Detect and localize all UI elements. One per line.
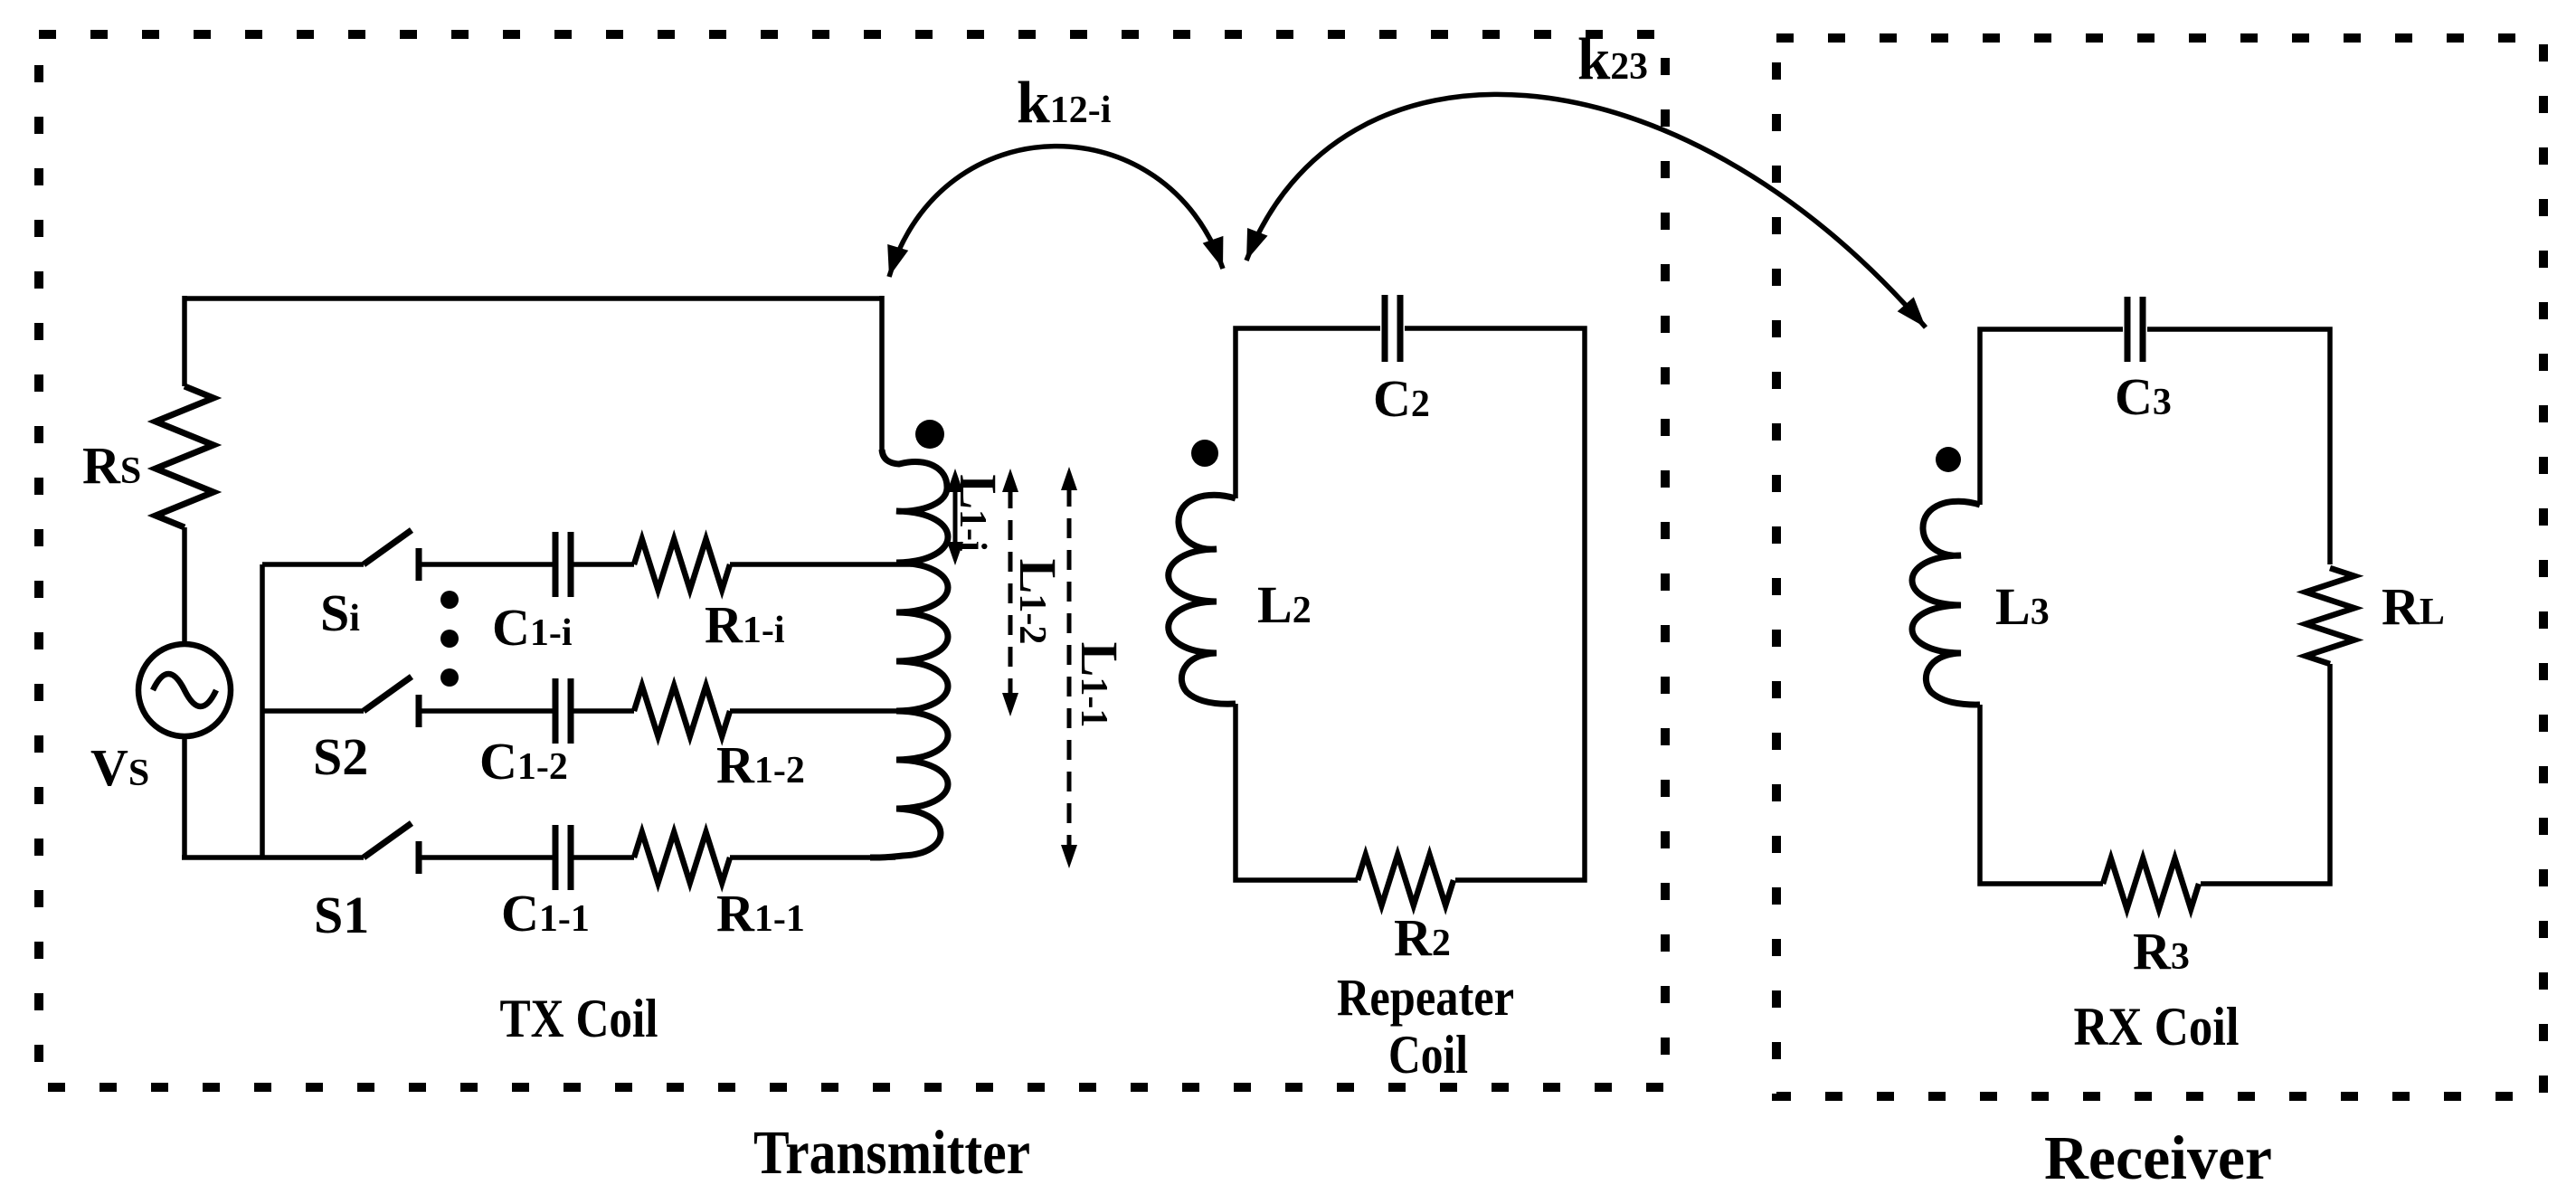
wire: repeater bottom-left + left side up to coil (1236, 704, 1358, 880)
wire: branch line to switch Si (262, 562, 364, 567)
coupling arrow k12-i (889, 147, 1223, 277)
switch Si blade (364, 530, 412, 564)
capacitor C1-1 (555, 825, 571, 890)
capacitor C2 (1385, 295, 1400, 362)
coupling arrow k23 (1246, 94, 1926, 327)
wire: repeater top-left segment (1236, 328, 1380, 498)
inductor L2 (1169, 495, 1236, 704)
L1-1 dimension arrow (dashed) (1067, 487, 1072, 848)
wire: capacitor C1-2 to resistor R1-2 (573, 708, 634, 714)
svg-text:S2: S2 (313, 727, 368, 786)
svg-text:S1: S1 (314, 886, 369, 944)
switch S1 contact bar (416, 841, 422, 874)
switch Si contact bar (416, 548, 422, 581)
wire: branch line to switch S1 (361, 855, 366, 860)
wire: left rail below Vs to bottom corner (182, 736, 187, 858)
Transmitter dashed box (39, 34, 1665, 1087)
resistor R3 (2103, 858, 2199, 909)
switch S2 blade (364, 677, 412, 711)
svg-text:Transmitter: Transmitter (753, 1118, 1030, 1187)
wire: left rail top segment (182, 296, 187, 386)
wire: capacitor C1-1 to resistor R1-1 (573, 855, 634, 860)
svg-text:Receiver: Receiver (2044, 1123, 2272, 1192)
capacitor C1-2 (555, 678, 571, 744)
svg-text:Coil: Coil (1388, 1025, 1468, 1085)
resistor RL (2306, 568, 2354, 664)
wire: RX right below RL + bottom to R3 (2201, 664, 2330, 884)
svg-text:TX Coil: TX Coil (500, 989, 658, 1048)
ellipsis dots between branches (440, 591, 459, 609)
capacitor C1-i (555, 532, 571, 597)
wire: switch S1 to capacitor C1-1 (419, 855, 553, 860)
L1-2 dimension arrow (dashed) (1009, 488, 1013, 696)
L1-i dimension arrow (solid) (953, 487, 958, 547)
wire: repeater top-right + right side + bottom to R2 (1405, 328, 1585, 880)
wire: left rail between Rs and Vs (182, 527, 187, 644)
inductor L3 (1912, 501, 1980, 705)
resistor R2 (1358, 855, 1454, 905)
switch S2 contact bar (416, 695, 422, 727)
wire: resistor R1-2 to coil L1 tap (730, 708, 912, 714)
resistor R1-i (634, 539, 730, 590)
svg-text:Repeater: Repeater (1337, 968, 1514, 1027)
wire: RX top-left segment (1980, 329, 2123, 505)
wire: switch Si to capacitor C1-i (419, 562, 553, 567)
wire: RX bottom-left + left side up to coil (1980, 705, 2103, 884)
wire: switch S2 to capacitor C1-2 (419, 708, 553, 714)
wire: bottom wire from Vs to S1 (182, 855, 364, 860)
wire: top wire of TX loop (185, 296, 882, 301)
wire: branch line to switch S2 (262, 708, 364, 714)
Receiver dashed box (1776, 38, 2543, 1096)
wire: resistor R1-i to coil L1 tap (730, 562, 912, 567)
coupling dot TX coil (915, 420, 944, 449)
capacitor C3 (2127, 297, 2143, 362)
wire: RX top-right + right down to RL (2147, 329, 2330, 564)
resistor Rs (156, 386, 213, 527)
coupling dot L2 (1191, 440, 1218, 467)
wire: branch bus vertical (260, 564, 265, 858)
inductor L1 (TX tapped coil) (870, 450, 948, 858)
wire: drop from top wire to TX coil (879, 296, 885, 452)
wire: capacitor C1-i to resistor R1-i (573, 562, 634, 567)
switch S1 blade (364, 823, 412, 858)
coupling dot L3 (1936, 447, 1961, 472)
resistor R1-1 (634, 832, 730, 883)
wire: resistor R1-1 to coil L1 tap (730, 855, 895, 860)
voltage source Vs (AC source) (138, 644, 231, 736)
svg-text:RX Coil: RX Coil (2074, 997, 2240, 1057)
resistor R1-2 (634, 686, 730, 736)
